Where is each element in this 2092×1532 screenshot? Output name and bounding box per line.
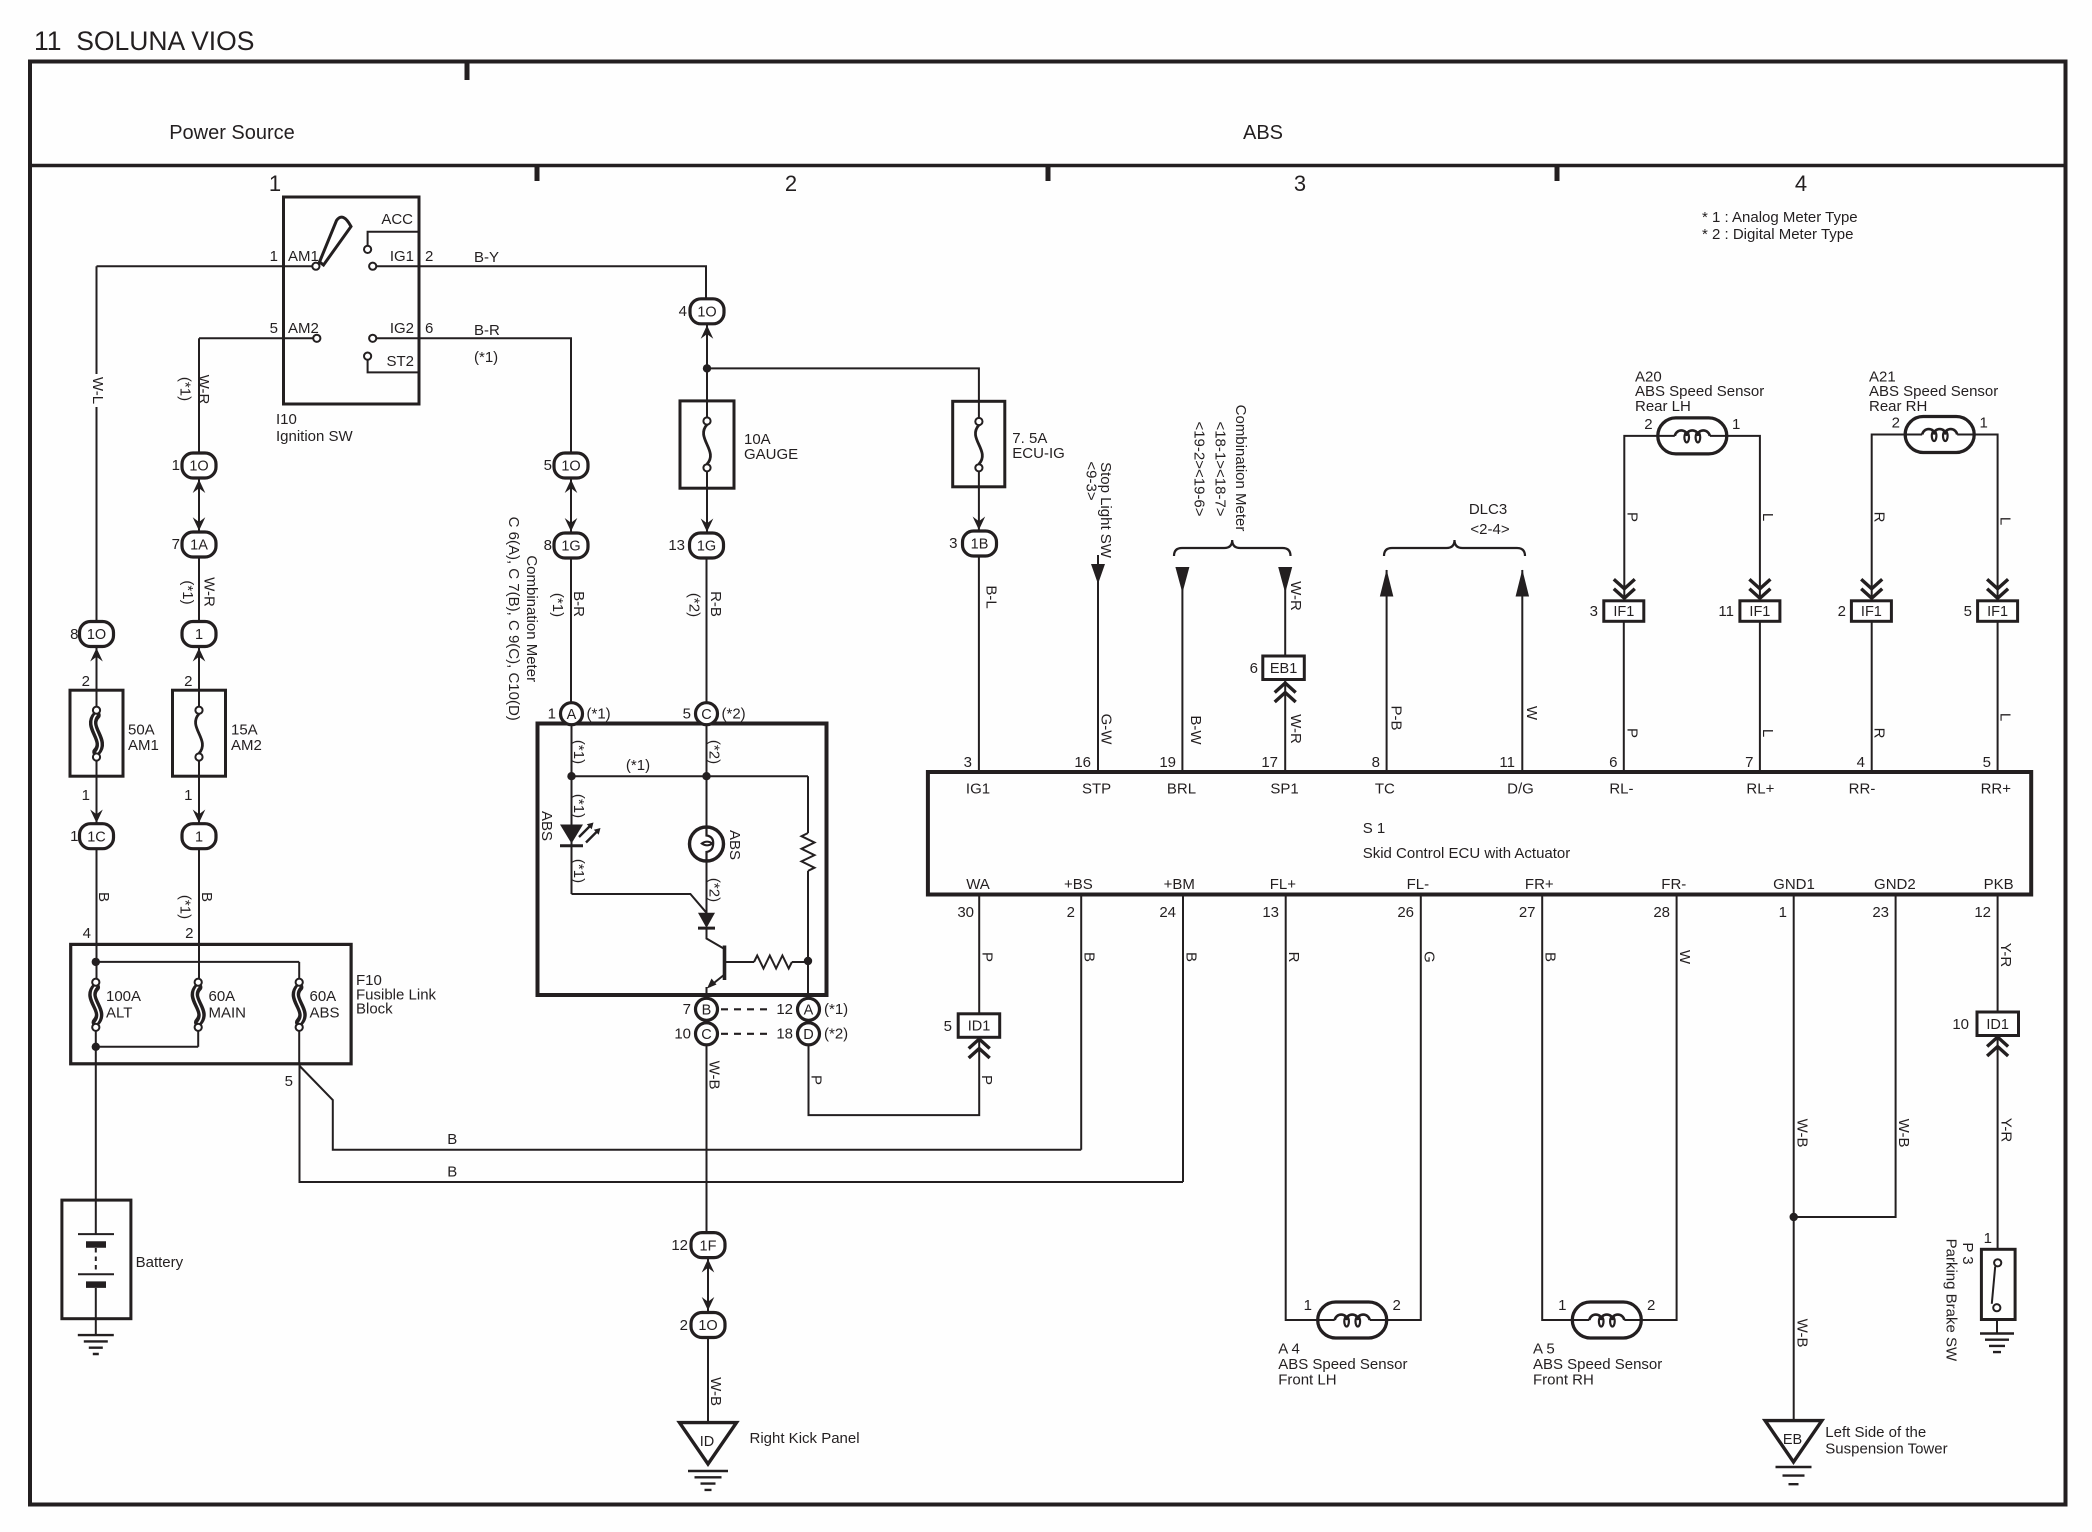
svg-text:16: 16	[1074, 754, 1091, 771]
svg-text:1: 1	[184, 787, 192, 804]
svg-text:W-B: W-B	[707, 1377, 724, 1406]
svg-text:FR+: FR+	[1525, 876, 1554, 893]
svg-text:STP: STP	[1082, 781, 1111, 798]
svg-text:19: 19	[1159, 754, 1176, 771]
F10 fuse 60A MAIN	[198, 944, 200, 979]
svg-text:2: 2	[425, 248, 433, 265]
svg-text:(*1): (*1)	[176, 377, 193, 401]
wire C into meter	[706, 725, 708, 833]
svg-text:Ignition SW: Ignition SW	[276, 428, 354, 445]
svg-text:P 3: P 3	[1959, 1242, 1976, 1264]
arrow into connector 8(1O)	[96, 647, 98, 691]
wire battery to ground	[95, 1288, 97, 1335]
svg-text:MAIN: MAIN	[209, 1005, 247, 1022]
svg-text:RR+: RR+	[1981, 781, 2012, 798]
ABS warning LED	[560, 825, 583, 844]
svg-text:5: 5	[270, 320, 278, 337]
B bus line lower	[300, 1064, 1184, 1182]
svg-text:1: 1	[1984, 1230, 1992, 1247]
svg-text:5: 5	[285, 1073, 293, 1090]
wire 1A to connector 1	[198, 557, 200, 622]
inline connector arrows 1O-1G	[570, 478, 572, 533]
svg-text:* 2 : Digital Meter Type: * 2 : Digital Meter Type	[1702, 226, 1853, 243]
svg-text:11 SOLUNA VIOS: 11 SOLUNA VIOS	[34, 26, 254, 56]
svg-text:P: P	[978, 1075, 995, 1085]
svg-text:4: 4	[679, 303, 687, 320]
wire B-Y	[419, 266, 706, 299]
svg-text:(*2): (*2)	[686, 593, 703, 617]
F10 internal bus top	[96, 961, 299, 963]
svg-text:(*2): (*2)	[705, 740, 722, 764]
I10 contact AM2	[313, 335, 320, 342]
svg-text:+BM: +BM	[1164, 876, 1195, 893]
junction dot A branch	[567, 772, 575, 780]
column tick 3-4	[1555, 167, 1560, 181]
svg-text:Front LH: Front LH	[1278, 1372, 1336, 1389]
svg-text:4: 4	[83, 925, 91, 942]
svg-text:1O: 1O	[697, 305, 716, 321]
base resistor	[725, 961, 755, 963]
svg-text:W-R: W-R	[195, 375, 212, 405]
inline connector arrows 1O-1A	[198, 478, 200, 532]
svg-text:1F: 1F	[700, 1238, 717, 1254]
parking brake switch P3	[1981, 1249, 2015, 1319]
svg-text:50A: 50A	[128, 722, 155, 739]
svg-text:1: 1	[82, 787, 90, 804]
wire P3 to ground	[1996, 1320, 1998, 1334]
svg-text:1: 1	[1304, 1297, 1312, 1314]
svg-text:B: B	[1542, 952, 1559, 962]
svg-text:1O: 1O	[87, 627, 106, 643]
svg-text:7: 7	[172, 536, 180, 553]
svg-text:(*1): (*1)	[570, 859, 587, 883]
svg-text:C 6(A), C 7(B), C 9(C), C10(D): C 6(A), C 7(B), C 9(C), C10(D)	[505, 517, 522, 721]
svg-text:S 1: S 1	[1363, 820, 1386, 837]
svg-text:ABS Speed Sensor: ABS Speed Sensor	[1533, 1356, 1662, 1373]
svg-text:Left Side of the: Left Side of the	[1825, 1424, 1926, 1441]
svg-text:G-W: G-W	[1097, 714, 1114, 746]
wire to ABS LED	[571, 776, 573, 894]
svg-text:(*2): (*2)	[722, 706, 746, 723]
svg-text:27: 27	[1519, 904, 1536, 921]
junction dot GND	[1790, 1213, 1798, 1221]
svg-text:Battery: Battery	[136, 1254, 184, 1271]
svg-text:(*1): (*1)	[570, 794, 587, 818]
header tick top	[465, 63, 470, 80]
connector 1O pin 5	[554, 453, 588, 478]
svg-text:SP1: SP1	[1270, 781, 1298, 798]
svg-text:W-L: W-L	[89, 377, 106, 404]
connector 1 (to AM2 fuse)	[182, 622, 216, 647]
svg-text:<9-3>: <9-3>	[1083, 461, 1100, 500]
stop light SW line	[1097, 555, 1099, 772]
svg-text:6: 6	[425, 320, 433, 337]
svg-text:1: 1	[548, 706, 556, 723]
svg-text:B: B	[95, 892, 112, 902]
svg-text:26: 26	[1397, 904, 1414, 921]
svg-text:L: L	[1759, 513, 1776, 521]
I10 contact AM1	[312, 263, 319, 270]
svg-text:4: 4	[1795, 171, 1807, 196]
LED emission arrows	[579, 826, 598, 843]
wire fuse AM2 to connector 1	[198, 776, 200, 823]
I10 contact ACC	[364, 246, 371, 253]
svg-text:(*1): (*1)	[549, 593, 566, 617]
svg-text:1: 1	[70, 828, 78, 845]
svg-text:1: 1	[1732, 416, 1740, 433]
svg-text:2: 2	[1067, 904, 1075, 921]
connector 1B pin 3	[963, 531, 997, 556]
I10 contact IG2	[369, 335, 376, 342]
svg-text:15A: 15A	[231, 722, 258, 739]
svg-text:<18-1><18-7>: <18-1><18-7>	[1211, 421, 1228, 516]
svg-text:(*2): (*2)	[705, 878, 722, 902]
ground triangle EB (Left Side of the Suspension Tower)	[1765, 1421, 1822, 1462]
wire B-L to ECU IG1	[978, 556, 980, 772]
svg-text:3: 3	[949, 535, 957, 552]
svg-text:6: 6	[1250, 660, 1258, 677]
svg-text:B: B	[198, 892, 215, 902]
connector 1O pin 4	[690, 299, 724, 324]
connector circle B pin 7	[696, 998, 718, 1020]
ABS bulb	[690, 827, 724, 861]
transistor Q (meter driver)	[707, 928, 725, 949]
svg-text:Right Kick Panel: Right Kick Panel	[750, 1430, 860, 1447]
svg-text:GND2: GND2	[1874, 876, 1916, 893]
svg-text:7: 7	[683, 1001, 691, 1018]
svg-text:28: 28	[1653, 904, 1670, 921]
D/G wire	[1521, 570, 1523, 772]
svg-text:BRL: BRL	[1167, 781, 1196, 798]
svg-text:10: 10	[674, 1026, 691, 1043]
junction dot C branch	[702, 772, 710, 780]
svg-text:R: R	[1285, 952, 1302, 963]
wire AM2 feed (W-R) horizontal	[199, 337, 313, 339]
svg-text:1: 1	[195, 627, 203, 643]
svg-text:2: 2	[1644, 416, 1652, 433]
diode	[698, 913, 715, 928]
svg-text:2: 2	[785, 171, 797, 196]
svg-text:Stop Light SW: Stop Light SW	[1097, 462, 1114, 559]
F10 fuse 60A ABS	[298, 962, 300, 979]
I10 internal wire ACC	[368, 232, 419, 246]
svg-text:5: 5	[683, 706, 691, 723]
svg-text:1G: 1G	[561, 539, 580, 555]
svg-text:A: A	[567, 707, 577, 723]
junction connector IF1 pin 2	[1851, 601, 1891, 622]
A4 ABS speed sensor front LH	[1318, 1302, 1387, 1338]
+BM wire (B)	[1182, 895, 1184, 1183]
svg-text:B-Y: B-Y	[474, 249, 499, 266]
svg-text:P-B: P-B	[1388, 705, 1405, 730]
svg-text:1O: 1O	[698, 1318, 717, 1334]
svg-text:(*1): (*1)	[179, 580, 196, 604]
GND2 wire (W-B)	[1794, 895, 1896, 1218]
I10 internal wire ST2	[368, 360, 419, 373]
svg-text:2: 2	[1393, 1297, 1401, 1314]
svg-text:2: 2	[1647, 1297, 1655, 1314]
combination meter brace	[1174, 540, 1291, 556]
svg-text:P: P	[1623, 512, 1640, 522]
svg-text:5: 5	[1983, 754, 1991, 771]
svg-text:8: 8	[544, 537, 552, 554]
svg-text:DLC3: DLC3	[1469, 501, 1507, 518]
SP1 wire lower	[1284, 679, 1286, 772]
svg-text:5: 5	[544, 457, 552, 474]
fuse 10A GAUGE	[680, 401, 734, 488]
ground (battery)	[78, 1335, 114, 1354]
FL+ wire (R) to A4	[1286, 895, 1318, 1321]
svg-text:EB1: EB1	[1270, 661, 1297, 677]
arrow into connector 1	[198, 647, 200, 691]
svg-text:5: 5	[944, 1018, 952, 1035]
svg-text:12: 12	[1974, 904, 1991, 921]
svg-text:IF1: IF1	[1987, 604, 2008, 620]
svg-text:RL+: RL+	[1746, 781, 1774, 798]
F10 fuse 100A ALT	[96, 944, 98, 979]
skid control ECU S1 box	[928, 772, 2031, 895]
svg-text:ACC: ACC	[381, 211, 413, 228]
junction dot	[703, 364, 711, 372]
svg-text:ALT: ALT	[106, 1005, 132, 1022]
I10 contact ST2	[364, 353, 371, 360]
WA wire (P) to ID1	[978, 895, 980, 1015]
junction connector IF1 pin 5	[1978, 601, 2018, 622]
wire fuse AM1 to 1C	[96, 776, 98, 823]
svg-text:+BS: +BS	[1064, 876, 1093, 893]
ignition switch I10 box	[284, 197, 420, 404]
connector 1O pin 1	[182, 453, 216, 478]
A20 pin1 wire (L) to IF1	[1727, 436, 1760, 601]
connector 1O pin 2	[691, 1313, 725, 1338]
svg-text:8: 8	[70, 626, 78, 643]
junction connector IF1 pin 3	[1604, 601, 1644, 622]
svg-text:13: 13	[668, 537, 685, 554]
svg-text:TC: TC	[1375, 781, 1395, 798]
arrow into 4(1O)	[706, 324, 708, 401]
wire IF1 to ECU RR-	[1871, 621, 1873, 772]
svg-text:EB: EB	[1783, 1432, 1802, 1448]
connector 1G pin 13	[690, 533, 724, 558]
svg-text:Skid Control ECU with Actuator: Skid Control ECU with Actuator	[1363, 845, 1571, 862]
svg-text:B: B	[447, 1131, 457, 1148]
svg-text:3: 3	[1590, 603, 1598, 620]
svg-text:60A: 60A	[310, 988, 337, 1005]
FR- wire (W) to A5	[1641, 895, 1676, 1321]
svg-text:(*1): (*1)	[626, 757, 650, 774]
dashed link B-A	[721, 1008, 767, 1010]
TC wire	[1386, 570, 1388, 772]
BRL wire	[1181, 568, 1183, 772]
wire bulb to diode ((*2))	[706, 861, 708, 914]
LED branch elbow to diode	[572, 894, 707, 913]
ground (parking brake SW)	[1980, 1334, 2014, 1353]
svg-text:<2-4>: <2-4>	[1470, 521, 1509, 538]
svg-text:AM1: AM1	[128, 737, 159, 754]
junction connector ID1 pin 10	[1977, 1012, 2019, 1036]
svg-text:ABS: ABS	[538, 811, 555, 841]
SP1 wire upper	[1284, 568, 1286, 656]
internal bus (*1)	[572, 775, 809, 777]
junction dot base/pull-up	[804, 957, 812, 965]
svg-text:A: A	[804, 1003, 814, 1019]
junction connector IF1 pin 11	[1740, 601, 1780, 622]
svg-text:ECU-IG: ECU-IG	[1012, 445, 1065, 462]
wire 1G to A ((*1) B-R)	[570, 558, 572, 703]
PKB wire (Y-R) to ID1	[1997, 895, 1999, 1013]
svg-text:6: 6	[1609, 754, 1617, 771]
fuse 7.5A ECU-IG	[953, 401, 1005, 487]
svg-text:WA: WA	[966, 876, 990, 893]
wire B-R	[419, 338, 571, 453]
svg-text:R: R	[1871, 512, 1888, 523]
svg-text:(*1): (*1)	[570, 740, 587, 764]
svg-text:Parking Brake SW: Parking Brake SW	[1943, 1239, 1960, 1362]
svg-text:2: 2	[184, 673, 192, 690]
svg-text:IG1: IG1	[390, 248, 414, 265]
svg-text:2: 2	[1892, 415, 1900, 432]
wire junction to ECU-IG fuse	[707, 368, 979, 401]
svg-text:W: W	[1523, 706, 1540, 721]
DLC3 brace	[1384, 540, 1525, 556]
svg-text:ID1: ID1	[968, 1019, 991, 1035]
connector 1C pin 1	[80, 824, 114, 849]
svg-text:L: L	[1759, 729, 1776, 737]
svg-text:ID1: ID1	[1986, 1017, 2009, 1033]
svg-text:ABS: ABS	[310, 1005, 340, 1022]
svg-text:ABS: ABS	[1243, 122, 1283, 144]
FL- wire (G) to A4	[1387, 895, 1421, 1321]
svg-text:FL+: FL+	[1270, 876, 1297, 893]
junction connector ID1 pin 5	[958, 1014, 1000, 1038]
wire AM1 feed (W-L) horizontal	[97, 265, 313, 267]
svg-text:P: P	[807, 1075, 824, 1085]
svg-text:Rear LH: Rear LH	[1635, 398, 1691, 415]
svg-text:W: W	[1676, 950, 1693, 965]
svg-text:IF1: IF1	[1749, 604, 1770, 620]
column tick 2-3	[1046, 167, 1051, 181]
svg-text:11: 11	[1718, 603, 1734, 620]
svg-text:C: C	[701, 1027, 711, 1043]
svg-text:1: 1	[1779, 904, 1787, 921]
wire to fusible link ((*1) B)	[198, 849, 200, 945]
svg-text:* 1 : Analog Meter Type: * 1 : Analog Meter Type	[1702, 209, 1858, 226]
fuse 15A AM2	[173, 690, 226, 776]
svg-text:B: B	[702, 1003, 712, 1019]
wire ID1 to parking brake SW	[1997, 1036, 1999, 1250]
F10 internal bus bottom	[96, 1046, 198, 1048]
wire label W-L (white backed)	[89, 374, 105, 407]
svg-text:1: 1	[270, 248, 278, 265]
svg-text:8: 8	[1372, 754, 1380, 771]
A21 pin1 wire (L) to IF1	[1974, 435, 1997, 601]
ground triangle ID (Right Kick Panel)	[680, 1423, 737, 1464]
svg-text:W-B: W-B	[1895, 1119, 1912, 1148]
combination meter box	[538, 724, 827, 996]
svg-text:ABS Speed Sensor: ABS Speed Sensor	[1278, 1356, 1407, 1373]
I10 contact IG1	[369, 263, 376, 270]
svg-text:W-B: W-B	[1794, 1319, 1811, 1348]
meter C pin wire W-B down	[706, 1045, 708, 1233]
svg-text:Power Source: Power Source	[169, 122, 295, 144]
GND1 wire (W-B)	[1793, 895, 1795, 1421]
svg-text:W-R: W-R	[1287, 714, 1304, 744]
svg-text:1: 1	[269, 171, 281, 196]
svg-text:FL-: FL-	[1407, 876, 1430, 893]
svg-text:(*1): (*1)	[587, 706, 611, 723]
svg-text:13: 13	[1262, 904, 1279, 921]
wire 1C to fusible link (B)	[96, 849, 98, 945]
svg-text:2: 2	[185, 925, 193, 942]
svg-text:W-B: W-B	[1794, 1119, 1811, 1148]
svg-text:4: 4	[1857, 754, 1865, 771]
svg-text:24: 24	[1159, 904, 1176, 921]
svg-text:3: 3	[964, 754, 972, 771]
svg-text:D: D	[803, 1027, 813, 1043]
svg-text:PKB: PKB	[1984, 876, 2014, 893]
svg-text:ID: ID	[700, 1434, 715, 1450]
battery plates	[78, 1233, 114, 1235]
svg-text:1: 1	[1558, 1297, 1566, 1314]
svg-text:AM2: AM2	[288, 320, 319, 337]
svg-text:Combination Meter: Combination Meter	[1232, 405, 1249, 532]
svg-text:B-L: B-L	[982, 585, 999, 608]
svg-text:W-B: W-B	[706, 1061, 723, 1090]
connector 1A pin 7	[182, 532, 216, 557]
svg-text:2: 2	[82, 673, 90, 690]
A20 pin2 wire (P) to IF1	[1624, 436, 1658, 601]
wire W-R vertical	[198, 338, 200, 453]
svg-text:IG2: IG2	[390, 320, 414, 337]
svg-text:1: 1	[172, 457, 180, 474]
I10 switch lever	[320, 217, 352, 265]
wire IF1 to ECU RL-	[1623, 621, 1625, 772]
svg-text:2: 2	[680, 1317, 688, 1334]
svg-text:100A: 100A	[106, 988, 141, 1005]
svg-text:2: 2	[1838, 603, 1846, 620]
wire ID1 to meter D pin	[809, 1037, 980, 1115]
svg-text:23: 23	[1872, 904, 1889, 921]
svg-text:R: R	[1871, 728, 1888, 739]
inline connector arrows 1F-1O	[707, 1258, 709, 1312]
svg-text:GAUGE: GAUGE	[744, 446, 798, 463]
svg-text:IF1: IF1	[1861, 604, 1882, 620]
svg-text:(*1): (*1)	[177, 895, 194, 919]
junction dot	[92, 958, 100, 966]
svg-text:1A: 1A	[190, 538, 208, 554]
svg-text:W-R: W-R	[1287, 581, 1304, 611]
pull-up resistor	[807, 776, 809, 833]
connector 1F pin 12	[691, 1233, 725, 1258]
+BS wire (B)	[1080, 895, 1082, 1150]
svg-text:1O: 1O	[561, 459, 580, 475]
svg-text:5: 5	[1964, 603, 1972, 620]
svg-text:B: B	[1183, 952, 1200, 962]
svg-text:Suspension Tower: Suspension Tower	[1825, 1441, 1947, 1458]
svg-text:AM1: AM1	[288, 248, 319, 265]
svg-text:B-W: B-W	[1187, 715, 1204, 745]
svg-text:ABS: ABS	[726, 830, 743, 860]
svg-text:IF1: IF1	[1613, 604, 1634, 620]
wire IF1 to ECU RL+	[1759, 621, 1761, 772]
header divider	[30, 164, 2066, 168]
svg-text:L: L	[1997, 517, 2014, 525]
svg-text:D/G: D/G	[1507, 781, 1534, 798]
svg-text:12: 12	[776, 1001, 793, 1018]
svg-text:Y-R: Y-R	[1997, 943, 2014, 968]
svg-text:11: 11	[1499, 754, 1515, 771]
connector circle C pin 10	[696, 1023, 718, 1045]
